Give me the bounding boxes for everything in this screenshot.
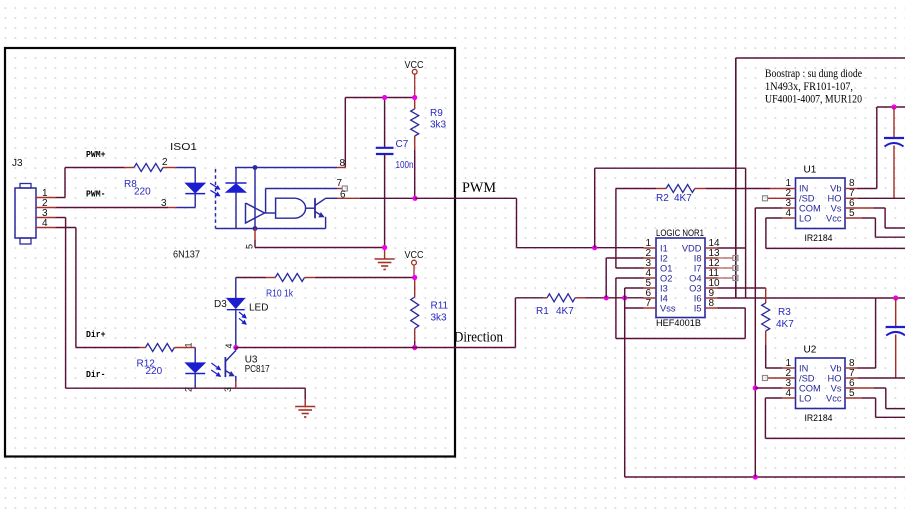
svg-text:Boostrap : su dung diode: Boostrap : su dung diode bbox=[765, 66, 862, 80]
svg-text:Direction: Direction bbox=[454, 330, 503, 346]
svg-text:7: 7 bbox=[336, 178, 342, 189]
svg-text:R11: R11 bbox=[431, 301, 449, 312]
svg-text:I6: I6 bbox=[694, 293, 702, 303]
svg-text:7: 7 bbox=[645, 298, 651, 309]
svg-text:2: 2 bbox=[184, 387, 194, 392]
svg-text:D3: D3 bbox=[214, 299, 227, 310]
svg-text:3k3: 3k3 bbox=[431, 313, 448, 324]
svg-text:COM: COM bbox=[799, 383, 821, 393]
svg-text:3k3: 3k3 bbox=[430, 120, 447, 131]
svg-text:R3: R3 bbox=[778, 307, 791, 318]
svg-text:4: 4 bbox=[224, 343, 234, 348]
svg-text:I8: I8 bbox=[694, 253, 702, 263]
svg-text:Vcc: Vcc bbox=[826, 393, 842, 403]
svg-text:8: 8 bbox=[340, 158, 346, 169]
svg-text:I3: I3 bbox=[660, 283, 668, 293]
svg-text:ISO1: ISO1 bbox=[170, 142, 198, 153]
svg-text:LOGIC NOR1: LOGIC NOR1 bbox=[656, 228, 704, 238]
svg-text:VCC: VCC bbox=[405, 250, 424, 261]
svg-text:1: 1 bbox=[184, 342, 194, 347]
svg-text:PWM+: PWM+ bbox=[86, 150, 106, 160]
svg-text:I1: I1 bbox=[660, 243, 668, 253]
svg-text:IN: IN bbox=[799, 183, 808, 193]
svg-text:4K7: 4K7 bbox=[674, 193, 692, 204]
svg-text:I7: I7 bbox=[694, 263, 702, 273]
svg-text:HO: HO bbox=[828, 373, 842, 383]
svg-text:PWM-: PWM- bbox=[86, 190, 106, 200]
svg-text:3: 3 bbox=[161, 198, 167, 209]
svg-text:U2: U2 bbox=[804, 345, 817, 356]
svg-text:O4: O4 bbox=[689, 273, 701, 283]
svg-text:R10 1k: R10 1k bbox=[266, 289, 294, 300]
svg-text:Dir-: Dir- bbox=[86, 370, 106, 380]
svg-text:O3: O3 bbox=[689, 283, 701, 293]
svg-text:Vb: Vb bbox=[830, 363, 841, 373]
svg-text:5: 5 bbox=[245, 244, 255, 249]
svg-text:Vss: Vss bbox=[660, 303, 676, 313]
svg-text:IR2184: IR2184 bbox=[805, 413, 833, 424]
svg-text:Vb: Vb bbox=[830, 183, 841, 193]
svg-text:/SD: /SD bbox=[799, 193, 815, 203]
svg-text:IN: IN bbox=[799, 363, 808, 373]
svg-text:PC817: PC817 bbox=[245, 364, 270, 375]
svg-text:4K7: 4K7 bbox=[556, 306, 574, 317]
svg-text:Vs: Vs bbox=[831, 203, 842, 213]
svg-text:LED: LED bbox=[249, 303, 268, 314]
svg-text:3: 3 bbox=[223, 387, 233, 392]
svg-text:2: 2 bbox=[162, 157, 168, 168]
svg-text:8: 8 bbox=[709, 298, 715, 309]
svg-text:I5: I5 bbox=[694, 303, 702, 313]
svg-text:UF4001-4007, MUR120: UF4001-4007, MUR120 bbox=[765, 92, 862, 106]
svg-text:HEF4001B: HEF4001B bbox=[656, 318, 701, 328]
svg-text:100n: 100n bbox=[396, 160, 414, 171]
svg-text:Dir+: Dir+ bbox=[86, 330, 106, 340]
svg-text:J3: J3 bbox=[12, 158, 23, 169]
svg-text:6N137: 6N137 bbox=[173, 250, 200, 261]
svg-text:COM: COM bbox=[799, 203, 821, 213]
svg-text:LO: LO bbox=[799, 393, 811, 403]
svg-text:220: 220 bbox=[146, 366, 163, 377]
svg-text:I4: I4 bbox=[660, 293, 668, 303]
svg-text:4K7: 4K7 bbox=[776, 319, 794, 330]
svg-text:IR2184: IR2184 bbox=[805, 233, 833, 244]
svg-text:U1: U1 bbox=[804, 165, 817, 176]
svg-text:I2: I2 bbox=[660, 253, 668, 263]
svg-text:O2: O2 bbox=[660, 273, 672, 283]
svg-text:R2: R2 bbox=[656, 193, 669, 204]
svg-text:R1: R1 bbox=[536, 306, 549, 317]
svg-text:4: 4 bbox=[42, 218, 48, 229]
svg-text:/SD: /SD bbox=[799, 373, 815, 383]
svg-text:HO: HO bbox=[828, 193, 842, 203]
svg-text:C7: C7 bbox=[396, 139, 409, 150]
svg-text:O1: O1 bbox=[660, 263, 672, 273]
svg-text:R9: R9 bbox=[430, 108, 443, 119]
svg-text:PWM: PWM bbox=[462, 180, 496, 196]
svg-text:220: 220 bbox=[134, 187, 151, 198]
svg-text:LO: LO bbox=[799, 213, 811, 223]
svg-text:Vs: Vs bbox=[831, 383, 842, 393]
svg-text:Vcc: Vcc bbox=[826, 213, 842, 223]
svg-text:VDD: VDD bbox=[682, 243, 702, 253]
